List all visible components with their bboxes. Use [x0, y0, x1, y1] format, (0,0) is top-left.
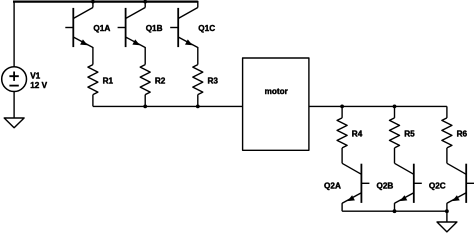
resistor R6 [442, 118, 452, 148]
svg-text:R4: R4 [352, 129, 363, 138]
svg-text:Q2B: Q2B [376, 182, 393, 191]
wire [144, 95, 146, 107]
wire [394, 203, 396, 211]
svg-text:R3: R3 [208, 77, 219, 86]
svg-text:R2: R2 [155, 77, 166, 86]
resistor R4 [337, 118, 347, 148]
wire [341, 106, 343, 118]
wire [197, 1, 199, 8]
svg-text:Q1C: Q1C [198, 24, 215, 33]
svg-text:12 V: 12 V [30, 81, 47, 90]
transistor Q1A [65, 8, 93, 48]
transistor Q2A [342, 163, 369, 203]
svg-text:Q2C: Q2C [429, 182, 446, 191]
wire [394, 106, 396, 118]
ground [4, 118, 24, 128]
node [445, 209, 449, 213]
wire [309, 105, 447, 107]
wire [394, 148, 396, 163]
wire [446, 211, 448, 222]
svg-text:R5: R5 [404, 129, 415, 138]
node [393, 209, 397, 213]
ground [437, 222, 457, 232]
node [91, 0, 95, 4]
resistor R5 [390, 118, 400, 148]
svg-text:motor: motor [265, 87, 289, 96]
motor [243, 58, 309, 150]
wire [144, 47, 146, 65]
resistor R3 [193, 65, 203, 95]
wire [341, 203, 343, 211]
wire [197, 47, 199, 65]
wire [446, 203, 448, 211]
label V1 12 V [30, 71, 47, 89]
wire [93, 105, 243, 107]
wire [342, 210, 447, 212]
wire [446, 148, 448, 163]
resistor R2 [140, 65, 150, 95]
svg-text:R6: R6 [457, 129, 468, 138]
node [340, 105, 344, 109]
wire [92, 95, 94, 107]
svg-text:R1: R1 [103, 77, 114, 86]
wire [13, 1, 198, 3]
wire [341, 148, 343, 163]
svg-text:Q1A: Q1A [93, 24, 110, 33]
wire [144, 1, 146, 8]
wire [197, 95, 199, 107]
transistor Q2B [395, 163, 422, 203]
node [393, 105, 397, 109]
node [143, 0, 147, 4]
transistor Q1C [170, 8, 198, 48]
voltage source V1 [2, 67, 27, 92]
svg-text:Q1B: Q1B [146, 24, 163, 33]
svg-text:V1: V1 [30, 71, 40, 80]
node [143, 105, 147, 109]
transistor Q2C [447, 163, 474, 203]
resistor R1 [88, 65, 98, 95]
wire [13, 92, 15, 119]
transistor Q1B [118, 8, 146, 48]
wire [92, 47, 94, 65]
wire [446, 106, 448, 118]
svg-text:Q2A: Q2A [324, 182, 341, 191]
wire [13, 1, 15, 67]
wire [92, 1, 94, 8]
node [196, 105, 200, 109]
